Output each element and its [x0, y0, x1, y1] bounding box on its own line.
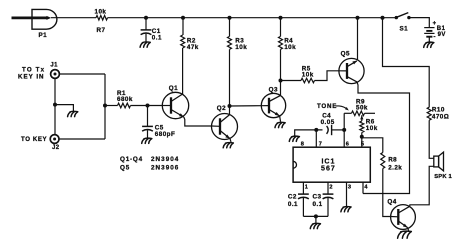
wire: [51, 17, 96, 19]
wire: [55, 105, 73, 112]
svg-text:SPK 1: SPK 1: [434, 174, 452, 180]
svg-text:9V: 9V: [438, 32, 446, 38]
wire: [280, 49, 282, 95]
resistor R8: [381, 153, 403, 172]
transistor Q5: [339, 50, 364, 83]
switch S1: [395, 13, 411, 33]
jack J2: [50, 135, 60, 151]
potentiometer R9: [344, 99, 375, 130]
node key sleeve ground tap: [53, 103, 57, 107]
pin 2: [328, 182, 333, 193]
svg-text:0.1: 0.1: [288, 201, 298, 208]
capacitor C5: [142, 106, 175, 139]
ground: [341, 207, 351, 212]
pin 5: [361, 142, 365, 148]
svg-text:0.05: 0.05: [321, 119, 335, 126]
resistor R10: [427, 107, 449, 121]
svg-text:50k: 50k: [356, 104, 368, 111]
ground: [424, 42, 434, 47]
wire: [280, 116, 281, 122]
svg-text:567: 567: [321, 166, 336, 173]
ground: [289, 136, 299, 141]
svg-text:Q2: Q2: [217, 105, 226, 112]
pin 7: [316, 130, 322, 148]
node rail / Q5 emitter junction: [356, 16, 360, 20]
wire: [184, 117, 212, 126]
wire: [105, 105, 118, 107]
svg-text:2.2k: 2.2k: [388, 165, 402, 172]
svg-text:R8: R8: [388, 157, 397, 164]
wire: [182, 48, 184, 94]
svg-text:Q5: Q5: [341, 50, 350, 57]
wire: [303, 215, 328, 217]
label TO Tx KEY IN: [18, 66, 45, 80]
pin 3: [347, 182, 352, 206]
node pin7 / C4 / ground junction: [314, 128, 318, 132]
svg-text:-: -: [433, 34, 436, 41]
label TO KEY: [21, 136, 47, 143]
speaker SPK1: [434, 152, 453, 180]
wire: [315, 71, 340, 81]
svg-text:TO KEY: TO KEY: [21, 136, 47, 143]
wire: [59, 138, 105, 140]
svg-text:10k: 10k: [302, 71, 314, 78]
wire: [131, 105, 163, 107]
ground: [223, 143, 233, 148]
svg-text:5: 5: [361, 142, 365, 148]
node Q2 collector / Q3 base junction: [228, 104, 232, 108]
label TONE: [317, 103, 349, 110]
ground: [310, 223, 320, 228]
svg-text:Q5: Q5: [120, 165, 130, 172]
svg-text:1: 1: [305, 185, 309, 191]
capacitor C4: [321, 113, 345, 136]
label transistor types: [120, 156, 179, 172]
pin 1: [303, 182, 308, 193]
svg-text:J2: J2: [52, 145, 60, 151]
svg-text:J1: J1: [50, 63, 58, 69]
svg-text:4: 4: [364, 185, 368, 191]
ground: [398, 231, 412, 238]
wire: [280, 18, 282, 37]
wire: [295, 130, 323, 136]
node rail-R3 junction: [228, 16, 232, 20]
capacitor C1: [141, 18, 162, 42]
svg-text:Q1: Q1: [169, 85, 178, 92]
wire: [104, 74, 106, 139]
transistor Q4: [387, 198, 415, 229]
wire: [357, 82, 410, 194]
svg-text:3: 3: [348, 185, 352, 191]
transistor Q2: [212, 105, 238, 139]
node rail-R4 junction: [279, 16, 283, 20]
ground: [142, 138, 152, 143]
wire: [229, 49, 231, 114]
node Q3 collector / R5 junction: [279, 79, 283, 83]
node rail / R10 feed junction: [381, 16, 385, 20]
pin 8 label: [301, 142, 305, 148]
svg-text:470Ω: 470Ω: [432, 113, 449, 120]
node C2-C3 ground bus junction: [314, 214, 318, 218]
wire: [59, 73, 105, 75]
wire: [281, 80, 302, 82]
svg-text:C3: C3: [313, 193, 322, 200]
wire: [357, 18, 359, 61]
pin 4: [363, 182, 368, 193]
svg-text:8: 8: [301, 142, 305, 148]
wire: [315, 216, 317, 223]
resistor R6 wiper: [360, 115, 378, 147]
jack J1: [50, 63, 59, 79]
svg-text:10k: 10k: [95, 9, 107, 16]
node R1 / C5 / Q1 base junction: [146, 104, 150, 108]
node R6 / R8 / pin5 junction: [360, 135, 364, 139]
wire: [383, 169, 391, 217]
svg-text:0.1: 0.1: [152, 34, 162, 41]
battery B1: [424, 21, 446, 42]
wire: [429, 120, 434, 158]
svg-text:680pF: 680pF: [155, 131, 175, 138]
node key loop / R1 junction: [103, 104, 107, 108]
op-amp U1 IC1 567 box: [293, 147, 370, 182]
node rail-C1 junction: [144, 16, 148, 20]
svg-text:Q1-Q4: Q1-Q4: [120, 156, 143, 163]
svg-text:B1: B1: [437, 26, 446, 32]
wire: [383, 18, 430, 108]
ground: [68, 111, 78, 116]
svg-text:10k: 10k: [284, 44, 296, 51]
svg-text:2N3904: 2N3904: [151, 156, 179, 163]
wire: [230, 105, 262, 107]
wire: [108, 17, 397, 19]
svg-text:2N3906: 2N3906: [151, 165, 179, 172]
svg-text:C2: C2: [288, 193, 297, 200]
node pin6 / C4 / R9 junction: [342, 128, 346, 132]
ground: [275, 122, 285, 127]
wire: [409, 18, 429, 28]
svg-text:P1: P1: [39, 32, 48, 39]
svg-text:KEY IN: KEY IN: [18, 73, 45, 80]
svg-text:TO Tx: TO Tx: [22, 66, 45, 73]
resistor R2: [181, 35, 199, 51]
resistor R3: [228, 36, 248, 51]
node rail-R2 junction: [181, 16, 185, 20]
wire: [230, 139, 231, 142]
transistor Q3: [261, 87, 285, 118]
resistor R4: [279, 36, 297, 51]
svg-text:Q3: Q3: [269, 87, 278, 94]
resistor R1: [117, 90, 133, 108]
ground: [140, 42, 150, 47]
wire: [54, 78, 56, 134]
svg-text:TONE: TONE: [317, 103, 337, 110]
capacitor C3: [313, 193, 334, 216]
svg-text:7: 7: [319, 142, 323, 148]
plug P1: [12, 9, 57, 39]
svg-text:47k: 47k: [187, 44, 199, 51]
svg-text:Q4: Q4: [387, 198, 396, 205]
svg-text:10k: 10k: [235, 44, 247, 51]
capacitor C2: [288, 193, 309, 216]
resistor R7: [95, 9, 108, 35]
svg-text:0.1: 0.1: [313, 201, 323, 208]
wire: [182, 18, 184, 35]
resistor R5: [301, 65, 315, 82]
svg-text:10k: 10k: [366, 125, 378, 132]
svg-text:6: 6: [346, 142, 350, 148]
wire: [229, 18, 231, 37]
svg-text:680k: 680k: [117, 96, 133, 103]
wire: [410, 166, 434, 206]
svg-text:R7: R7: [97, 27, 106, 34]
wire: [408, 228, 409, 231]
wire: [362, 138, 383, 153]
svg-text:2: 2: [329, 185, 333, 191]
svg-text:S1: S1: [400, 26, 409, 33]
transistor Q1: [162, 85, 189, 119]
pin 6: [344, 130, 349, 148]
